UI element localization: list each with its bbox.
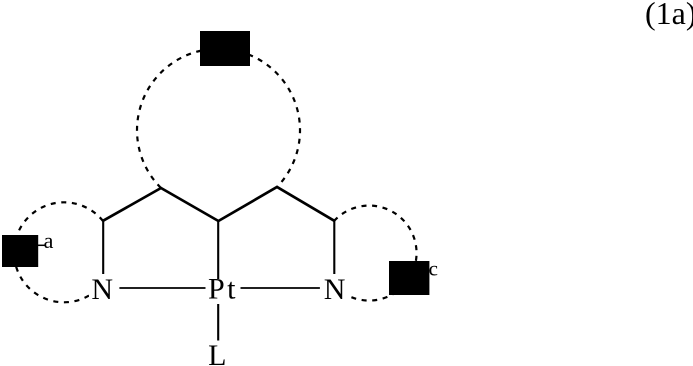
mask behind right N bbox=[321, 276, 349, 302]
svg-text:c: c bbox=[429, 257, 438, 281]
dashed ring b (top circle arc) bbox=[137, 49, 300, 188]
svg-text:a: a bbox=[44, 228, 54, 253]
short tick right of left square bbox=[37, 244, 45, 246]
bond zigzag C-C backbone bbox=[103, 187, 334, 221]
substituent block right square bbox=[389, 261, 429, 295]
wire C-N left vertical bond bbox=[102, 221, 104, 274]
wire N-Pt left horizontal bond bbox=[119, 287, 205, 289]
mask behind left N bbox=[89, 276, 117, 302]
dashed ring a (left circle arc) bbox=[14, 202, 103, 302]
wire Pt-N right horizontal bond bbox=[241, 287, 320, 289]
wire C-Pt center vertical bond bbox=[217, 221, 219, 279]
svg-text:N: N bbox=[91, 273, 113, 306]
svg-text:(1a): (1a) bbox=[645, 0, 693, 31]
wire Pt-L vertical bond bbox=[217, 304, 219, 341]
svg-text:Pt: Pt bbox=[208, 272, 238, 305]
dashed ring c (right circle arc) bbox=[334, 206, 417, 301]
svg-text:L: L bbox=[208, 339, 226, 366]
wire C-N right vertical bond bbox=[333, 221, 335, 274]
substituent block top square bbox=[200, 31, 250, 66]
svg-text:N: N bbox=[324, 273, 346, 306]
substituent block left square bbox=[2, 235, 38, 267]
